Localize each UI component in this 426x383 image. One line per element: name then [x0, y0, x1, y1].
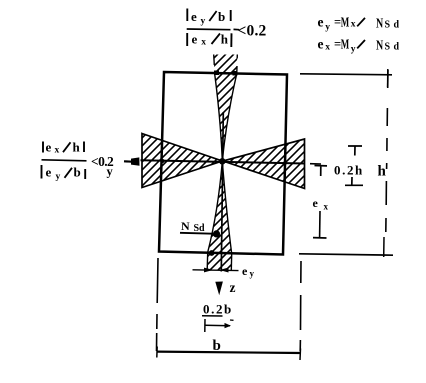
- svg-text:y: y: [56, 172, 61, 182]
- node on left section edge: [161, 159, 165, 163]
- band taper right edge: [222, 74, 236, 161]
- band taper left edge: [215, 73, 223, 161]
- b dimension line: [157, 352, 301, 353]
- hatched band bottom (pinch to below section): [207, 162, 232, 271]
- svg-text:e: e: [242, 264, 248, 278]
- svg-text:x: x: [325, 42, 330, 52]
- node on bottom edge: [209, 250, 215, 256]
- h dimension bottom extension: [299, 254, 393, 255]
- 0.2b dim right arrowhead: [225, 323, 232, 328]
- e_y dimension line: [193, 269, 239, 272]
- svg-text:y: y: [250, 269, 255, 279]
- svg-text:e: e: [318, 14, 324, 29]
- svg-text:x: x: [351, 19, 356, 29]
- svg-text:y: y: [107, 165, 114, 179]
- 0.2h top T mark: [348, 146, 362, 156]
- b dim right tick: [299, 349, 302, 361]
- b dimension left extension (dashed): [157, 258, 159, 351]
- band bottom right edge: [222, 162, 231, 271]
- svg-text:M: M: [341, 14, 350, 29]
- vertical z axis line: [221, 112, 223, 272]
- 0.2b dim right dash: [230, 319, 234, 321]
- y axis dash right: [310, 163, 321, 165]
- svg-text:e: e: [318, 36, 324, 51]
- svg-text:h: h: [378, 164, 387, 180]
- svg-text:N: N: [376, 38, 383, 53]
- svg-text:x: x: [201, 37, 206, 47]
- svg-text:h: h: [221, 32, 229, 47]
- svg-text:0.2h: 0.2h: [334, 163, 364, 178]
- center node: [219, 158, 226, 165]
- rectangle section outline: [159, 72, 287, 255]
- h dim top tick: [387, 69, 389, 87]
- h dim bottom tick: [383, 237, 385, 257]
- svg-text:x: x: [324, 202, 329, 212]
- e_x dim stem: [319, 211, 321, 238]
- top fraction bar: [187, 28, 239, 31]
- band top left dashed edge: [213, 55, 216, 66]
- e_y right arrowhead: [220, 268, 229, 273]
- h dimension line (dashed): [386, 70, 388, 232]
- svg-text:0.2b: 0.2b: [203, 302, 233, 317]
- svg-text:e: e: [46, 140, 52, 155]
- 0.2b dim line: [205, 324, 230, 327]
- N_Sd pointer line: [180, 233, 217, 234]
- band top right dashed edge: [236, 55, 239, 74]
- svg-text:<0.2: <0.2: [238, 23, 267, 40]
- svg-text:z: z: [230, 280, 236, 295]
- e_x dim top T mark: [315, 166, 328, 177]
- b dim left tick: [156, 347, 158, 358]
- z axis arrowhead: [215, 282, 223, 296]
- node on right section edge: [283, 162, 287, 166]
- svg-text:e: e: [192, 32, 198, 47]
- svg-text:Sd: Sd: [385, 42, 403, 53]
- h dimension top extension: [300, 74, 392, 75]
- svg-text:Sd: Sd: [385, 20, 403, 31]
- left fraction denominator |e_y/b|: [42, 164, 86, 182]
- svg-text:e: e: [46, 164, 52, 179]
- left hatched wedge: [142, 134, 222, 188]
- y-axis arrow (tail): [124, 160, 132, 163]
- svg-text:h: h: [73, 140, 81, 155]
- svg-text:b: b: [218, 9, 225, 24]
- top fraction denominator |e_x/h|: [187, 32, 231, 48]
- svg-text:M: M: [341, 36, 350, 51]
- svg-text:N: N: [181, 219, 190, 233]
- svg-text:x: x: [55, 146, 60, 156]
- 0.2b underline: [202, 315, 223, 317]
- band bottom left edge: [207, 162, 222, 270]
- y-axis arrow (head): [131, 157, 140, 165]
- svg-text:y: y: [351, 44, 356, 54]
- top fraction numerator |e_y/b|: [187, 9, 230, 27]
- b dimension right extension (dashed): [299, 261, 302, 351]
- svg-text:b: b: [74, 164, 81, 179]
- svg-text:N: N: [376, 15, 383, 30]
- svg-text:e: e: [191, 9, 197, 24]
- 0.2h bottom ⊥ mark: [345, 177, 363, 185]
- N_Sd load point: [213, 230, 220, 237]
- left fraction numerator |e_x/h|: [43, 140, 84, 156]
- right hatched wedge: [223, 139, 305, 189]
- junction blob left: [214, 71, 219, 76]
- svg-text:y: y: [325, 23, 330, 33]
- svg-text:e: e: [313, 196, 319, 210]
- svg-text:y: y: [201, 17, 206, 27]
- left fraction bar: [42, 160, 87, 161]
- e_y left arrowhead: [204, 268, 214, 273]
- e_x dim bottom ⊥ mark: [313, 237, 327, 239]
- 0.2b dim left tick: [204, 319, 206, 332]
- hatched band top (above section): [214, 55, 238, 75]
- horizontal y axis line: [141, 160, 306, 163]
- hatched band top taper (inside section): [215, 73, 237, 161]
- junction blob right: [233, 71, 238, 76]
